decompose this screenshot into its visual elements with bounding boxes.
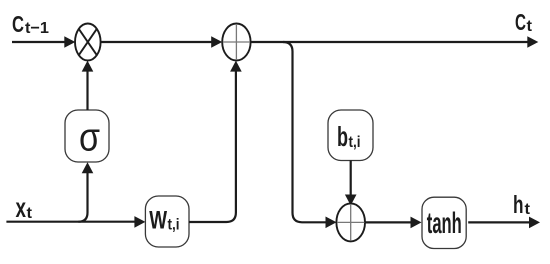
label h_t <box>513 191 531 219</box>
svg-text:t: t <box>527 18 533 35</box>
label C_t output <box>515 9 533 35</box>
wire add to Ct output <box>251 41 529 43</box>
svg-text:t−1: t−1 <box>25 20 49 37</box>
svg-text:σ: σ <box>79 116 100 160</box>
node multiply (Hadamard) <box>75 24 101 61</box>
svg-text:W: W <box>149 207 167 234</box>
box W_t,i <box>145 196 189 247</box>
wire W to add <box>189 70 236 222</box>
svg-text:t: t <box>525 201 531 218</box>
label x_t <box>16 192 33 223</box>
wire tanh to h_t output <box>468 221 530 223</box>
label C_t-1 <box>12 11 49 37</box>
svg-text:h: h <box>513 191 524 219</box>
box tanh <box>422 197 466 248</box>
wire branch down from Ct line <box>283 42 327 222</box>
svg-text:C: C <box>515 9 526 35</box>
svg-text:tanh: tanh <box>427 207 462 240</box>
wire sigma to multiply <box>86 70 88 110</box>
wire Ct-1 input <box>12 41 66 43</box>
svg-text:t: t <box>27 205 33 222</box>
svg-text:x: x <box>16 192 27 223</box>
wire x_t input <box>6 221 135 223</box>
box b_t,i <box>328 110 373 161</box>
svg-text:t,i: t,i <box>168 216 180 233</box>
wire b to add2 <box>350 161 352 197</box>
svg-text:t,i: t,i <box>349 134 361 151</box>
wire multiply to add <box>101 41 213 43</box>
svg-text:C: C <box>12 11 24 37</box>
node add bottom <box>336 203 365 241</box>
wire add2 to tanh <box>365 221 412 223</box>
svg-text:b: b <box>337 121 348 152</box>
box sigma <box>65 110 109 162</box>
node add top <box>222 24 250 61</box>
wire branch up to sigma <box>78 172 87 222</box>
